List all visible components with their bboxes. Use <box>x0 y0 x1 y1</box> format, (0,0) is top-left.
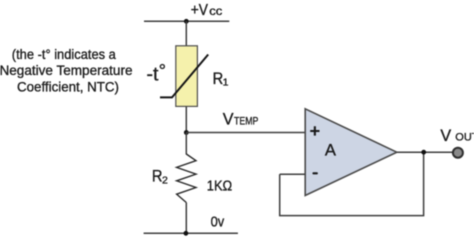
wire top +Vcc rail <box>144 20 229 22</box>
wire op-amp minus input <box>280 173 306 175</box>
svg-text:-t: -t <box>147 63 159 85</box>
svg-text:(the -t° indicates a: (the -t° indicates a <box>12 47 116 63</box>
svg-text:Coefficient, NTC): Coefficient, NTC) <box>17 79 119 95</box>
node ground junction <box>184 231 189 236</box>
svg-text:A: A <box>325 141 337 160</box>
op-amp A plus input mark <box>310 126 319 135</box>
wire op-amp output <box>397 151 453 153</box>
svg-text:°: ° <box>159 61 166 81</box>
wire VTEMP to op-amp plus input <box>186 132 305 134</box>
wire +Vcc rail to R1 top <box>185 21 187 46</box>
resistor R2 zigzag <box>177 154 196 203</box>
node VTEMP junction <box>184 130 189 135</box>
wire feedback loop <box>280 152 424 215</box>
wire R2 bottom to ground rail <box>185 203 187 234</box>
svg-text:V: V <box>223 110 234 129</box>
ground 0v rail <box>144 232 238 234</box>
terminal VOUT <box>453 148 463 158</box>
svg-text:1KΩ: 1KΩ <box>207 179 232 195</box>
op-amp A body <box>305 109 397 196</box>
svg-text:1: 1 <box>223 77 229 89</box>
svg-text:cc: cc <box>209 4 222 18</box>
svg-text:+V: +V <box>191 2 209 19</box>
resistor R1 thermistor body <box>176 46 198 107</box>
svg-text:V: V <box>440 126 451 145</box>
wire VTEMP node to R2 top <box>185 133 187 155</box>
op-amp A minus input mark <box>312 172 318 174</box>
svg-text:0v: 0v <box>211 213 225 230</box>
wire R1 bottom to VTEMP node <box>185 106 187 133</box>
resistor R1 thermistor diagonal <box>160 55 208 98</box>
svg-text:TEMP: TEMP <box>234 116 258 128</box>
svg-text:Negative Temperature: Negative Temperature <box>0 63 133 79</box>
svg-text:OUT: OUT <box>455 132 474 144</box>
node output junction <box>421 150 426 155</box>
svg-text:2: 2 <box>162 174 168 186</box>
node +Vcc junction <box>184 19 189 24</box>
